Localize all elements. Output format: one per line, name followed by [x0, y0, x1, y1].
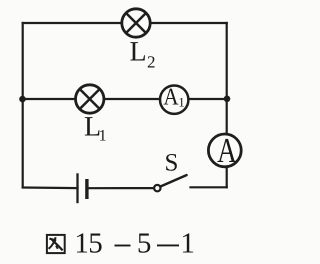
switch S pivot	[154, 185, 160, 191]
wire: top horizontal	[23, 22, 227, 24]
junction node right	[224, 96, 231, 103]
caption: 15-5-1	[74, 228, 194, 260]
svg-text:1: 1	[180, 228, 195, 260]
svg-text:A: A	[163, 85, 179, 111]
caption dashes	[115, 245, 131, 247]
junction node left	[19, 96, 26, 103]
svg-text:2: 2	[147, 53, 156, 72]
caption: hanzi tu (drawn)	[47, 235, 65, 253]
switch S lever	[161, 175, 187, 186]
svg-text:A: A	[217, 131, 237, 170]
lamp L2	[122, 9, 150, 37]
wire: right vertical lower (ammeter A to bottom)	[226, 167, 228, 188]
svg-text:1: 1	[99, 128, 107, 145]
battery positive plate (long)	[76, 173, 78, 203]
svg-text:S: S	[165, 150, 179, 177]
paper background	[0, 0, 247, 264]
svg-text:L: L	[130, 37, 147, 68]
ammeter A1	[160, 85, 188, 114]
lamp L1	[76, 85, 104, 113]
wire: right vertical upper	[226, 23, 228, 134]
ammeter A	[208, 131, 241, 170]
wire: left vertical	[22, 23, 24, 187]
wire: bottom left to battery	[23, 186, 78, 189]
svg-text:5: 5	[137, 228, 152, 260]
battery negative plate (short)	[85, 179, 88, 199]
svg-text:1: 1	[74, 228, 89, 260]
svg-text:5: 5	[88, 228, 103, 260]
wire: battery to switch pivot	[87, 187, 154, 189]
svg-text:1: 1	[178, 95, 185, 110]
wire: middle horizontal	[23, 98, 227, 100]
wire: switch right segment	[191, 186, 227, 188]
